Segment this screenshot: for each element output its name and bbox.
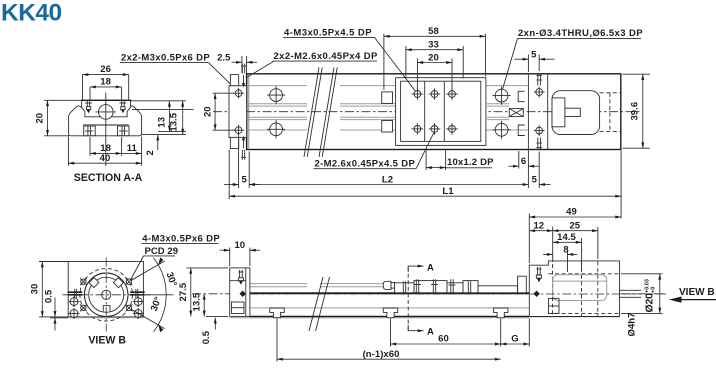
circle crosshair [96,111,117,113]
centerline motor [529,293,666,295]
svg-text:10: 10 [234,240,245,251]
bolt left M3 [86,100,88,106]
dim 18 bottom [89,137,91,156]
carriage top edge thick [81,99,131,101]
svg-text:5: 5 [242,174,248,185]
rail inner gray [250,307,529,309]
dim 20 carriage [416,59,418,90]
end block pocket [232,302,245,314]
svg-text:VIEW B: VIEW B [88,335,126,347]
svg-text:2.5: 2.5 [217,52,231,63]
motor boss dashed [548,273,619,275]
rail top edge restroke [250,292,529,294]
angle radial up [131,261,164,280]
centerline [213,111,641,113]
dim 26 [82,75,84,100]
svg-text:18: 18 [100,77,111,88]
gap screws bottom [536,127,543,134]
motor shaft [565,108,580,116]
svg-text:G: G [511,334,518,345]
foot 2 [383,308,397,318]
rail body bottom [250,315,620,317]
base housing outline [69,106,142,136]
dim G [528,319,530,347]
svg-text:SECTION A-A: SECTION A-A [74,172,143,184]
foot 1 [270,308,284,318]
svg-text:33: 33 [428,40,439,51]
corner holes right [134,298,142,306]
screw cover tube [250,283,307,285]
motor rounded body [552,91,600,135]
svg-text:L2: L2 [382,174,393,185]
svg-text:10x1.2 DP: 10x1.2 DP [447,157,494,168]
motor block screw [537,267,539,275]
svg-text:PCD 29: PCD 29 [145,246,179,257]
motor dashed extents [600,92,621,94]
svg-text:5: 5 [531,49,537,60]
dim 40 [67,137,69,166]
svg-text:2xn-Ø3.4THRU,Ø6.5x3 DP: 2xn-Ø3.4THRU,Ø6.5x3 DP [518,28,643,39]
svg-text:A: A [427,262,434,273]
gap screws top [537,73,539,86]
angle ref line [135,294,174,296]
rail foot left [84,126,96,136]
crosshair horizontal [63,294,151,296]
rail gray lines [247,85,307,87]
counterbore hole left top [270,89,283,102]
dim 13 [168,101,170,132]
svg-text:40: 40 [100,153,111,164]
carriage screws side [402,281,404,293]
motor block side [529,261,619,317]
end block [230,268,250,317]
dim 10 [229,248,231,267]
diamond right [533,291,539,297]
ballscrew nut flange bottom [382,121,393,133]
angle radial down [131,309,164,328]
svg-text:6: 6 [521,156,526,167]
svg-text:Ø4h7: Ø4h7 [627,313,638,337]
end block screw [239,270,241,278]
svg-text:4-M3x0.5Px6 DP: 4-M3x0.5Px6 DP [142,234,220,245]
dim 13.5 [182,101,184,135]
svg-text:+0: +0 [650,287,656,293]
end face gray band [247,75,249,150]
bracket bottom right [518,125,525,136]
svg-text:2x2-M2.6x0.45Px4 DP: 2x2-M2.6x0.45Px4 DP [274,51,379,62]
dim 20 main left [213,92,235,94]
rail foot screws [87,127,89,136]
svg-text:26: 26 [100,64,111,75]
svg-text:20: 20 [428,52,439,63]
dim 30 [39,261,68,263]
bolt right M3 [121,100,123,106]
diamond right restroke [533,291,539,297]
carriage profile side [395,276,527,293]
dim 6 [518,151,520,169]
dim 5 bottom right [527,169,529,189]
dim 5 bottom left [238,136,240,188]
clamp left [68,291,83,293]
rail foot right [118,126,130,136]
ballscrew tail to carriage [382,103,396,105]
dim 58 [383,34,385,90]
dim L1 [228,150,230,200]
svg-text:49: 49 [566,207,577,218]
dim O20 [621,273,663,275]
svg-text:(n-1)x60: (n-1)x60 [363,349,400,360]
svg-text:60: 60 [438,334,449,345]
dim 8 [567,250,569,272]
break lines [304,68,337,158]
svg-text:58: 58 [428,26,439,37]
inner circle [89,277,124,312]
ext lines right 13 13.5 [131,100,187,102]
dim 14.5 [581,238,583,270]
dim 5 top [527,55,529,73]
svg-text:11: 11 [127,143,138,154]
bracket top right [518,91,525,101]
centerline restroke [250,293,529,295]
carriage holes M3 row top [412,88,458,100]
PCD dashed circle [80,269,133,322]
svg-text:2x2-M3x0.5Px6 DP: 2x2-M3x0.5Px6 DP [121,52,210,63]
left M3 hole top [235,90,242,97]
svg-text:8: 8 [563,244,568,255]
shaft ext lines [620,289,642,291]
bottom tab [103,306,110,312]
svg-text:L1: L1 [442,186,454,197]
dim 60 [390,319,392,347]
centerline [192,293,666,295]
left end screws M2.6 top [241,64,243,74]
gearbox rounded [553,275,607,301]
dim 13.5 side [203,294,205,317]
dim 0.5 side [206,315,228,317]
svg-text:2-M2.6x0.45Px4.5 DP: 2-M2.6x0.45Px4.5 DP [315,159,416,170]
svg-text:14.5: 14.5 [557,232,576,243]
carriage holes row bottom [412,123,458,135]
left corner block top [230,75,238,86]
slot 10x1.2 [425,151,427,171]
motor pilot circle [84,273,128,317]
svg-text:KK40: KK40 [1,0,62,27]
motor flange line [547,74,549,150]
dim 18 top [89,87,91,100]
svg-text:2: 2 [145,150,156,155]
bolt holes PCD29 [80,278,132,311]
tube end cap [383,281,391,289]
break lines side [309,277,323,331]
dim 33 [405,46,407,79]
corner holes left [70,298,78,306]
dim 2.5 [241,56,243,73]
svg-text:Ø20: Ø20 [644,293,656,313]
base line [68,317,143,319]
counterbore hole right bottom [495,123,508,136]
pilot circle restroke [84,273,128,317]
svg-text:13.5: 13.5 [192,292,203,311]
section line A-A [407,267,409,330]
left corner block bottom [230,137,238,148]
flange rect [68,262,143,317]
svg-text:13: 13 [157,117,168,128]
svg-text:5: 5 [532,174,538,185]
dim 49 [528,214,530,264]
shaft circle [102,290,111,299]
dim 25 [597,227,599,259]
body end line [527,74,529,150]
rail body top [250,292,529,294]
view B arrow [669,297,682,303]
dim 0.5 [50,317,68,319]
carriage outer [396,78,486,146]
svg-text:13.5: 13.5 [168,112,179,131]
svg-text:27.5: 27.5 [178,282,189,301]
svg-text:4-M3x0.5Px4.5 DP: 4-M3x0.5Px4.5 DP [284,27,372,38]
dim (n-1)x60 [276,319,278,362]
notch top-left [89,278,99,288]
coupling housing [552,98,565,127]
ballscrew circle [99,105,114,120]
svg-text:20: 20 [203,106,214,117]
body outline [247,74,621,150]
left end screws M2.6 bottom [241,150,243,160]
dim 27.5 [187,267,229,269]
svg-text:39.6: 39.6 [630,102,641,121]
left M3 hole bottom [235,127,242,134]
angle arc [154,258,167,332]
notch top-right [113,278,123,288]
carriage mid band [424,81,426,141]
svg-text:0.5: 0.5 [201,330,212,344]
dim 20 left [44,99,82,101]
counterbore hole right top [495,89,508,102]
dim L2 [249,184,528,186]
ballscrew shaft gray [247,103,307,105]
svg-text:30: 30 [29,284,40,295]
dim 12 [552,227,554,263]
ballscrew nut flange top [382,92,393,104]
bearing symbol [509,109,523,117]
base bottom gray [230,317,530,319]
clamp right [130,291,145,293]
svg-text:0.5: 0.5 [44,289,55,303]
foot 3 [494,308,508,318]
carriage inner [401,81,481,141]
carriage block [82,100,131,117]
svg-text:12: 12 [533,221,544,232]
svg-text:A: A [427,327,434,338]
counterbore hole left bottom [270,123,283,136]
dim 2 [157,135,159,150]
crosshair vertical [105,258,107,332]
dim 39.6 [623,73,651,75]
left end seal plate [229,86,247,138]
motor dashed verticals [552,264,554,316]
section centerline [105,93,107,167]
rail interface gray band [83,124,129,126]
dim 11 [122,152,142,154]
diamond left [240,291,246,297]
svg-text:20: 20 [35,113,46,124]
svg-text:VIEW B: VIEW B [679,287,715,298]
pocket motor block [549,298,560,313]
svg-text:25: 25 [569,221,580,232]
